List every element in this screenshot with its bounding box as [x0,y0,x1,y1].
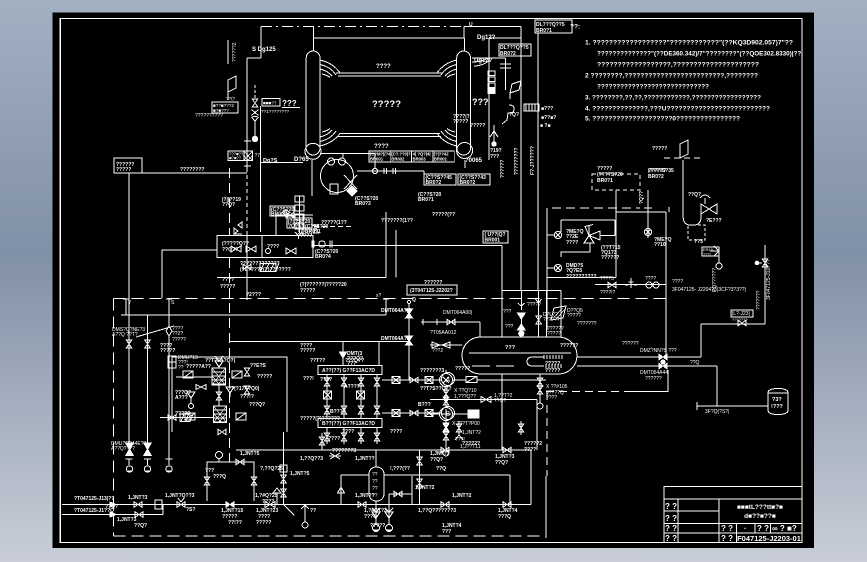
boiler right downcomer column [457,51,471,155]
dosing valve pair [196,385,206,390]
motor valve symbols in box [234,222,242,234]
svg-text:?????: ????? [567,313,581,319]
bottom header valves [134,502,142,508]
svg-text:Q: Q [412,297,416,303]
svg-text:?Q?: ?Q? [509,112,519,118]
aux vertical x648 [647,190,649,238]
svg-text:????????: ???????? [180,167,204,173]
svg-text:??: ?? [372,472,378,478]
boiler right column drain [464,160,466,168]
dosing pump row line [176,376,212,378]
svg-text:?????????: ????????? [514,148,520,176]
control valve with actuator [700,195,710,204]
bypass valve above box [286,212,294,218]
deaerator feed pipe [501,246,503,338]
svg-text:???????3: ???????3 [420,368,444,374]
pump suction line [320,153,343,155]
svg-text:???????: ??????? [577,321,597,327]
svg-text:1,JNT?5: 1,JNT?5 [290,471,310,477]
svg-text:????: ???? [222,277,234,283]
svg-text:???Q?: ???Q? [249,402,265,408]
boiler top-right tube swoosh [437,60,457,78]
phosphate dosing skid outline [172,357,287,432]
svg-text:S Dg125: S Dg125 [252,47,276,53]
drawing border frame [60,19,802,543]
svg-text:!,???(??: !,???(?? [390,466,410,472]
svg-text:??????: ?????? [645,376,662,382]
svg-text:1,JNT?Q??3: 1,JNT?Q??3 [165,493,195,499]
svg-text:?????(??: ?????(?? [432,212,455,218]
svg-text:???!?: ???!? [240,394,254,400]
svg-text:DMT064A00|: DMT064A00| [443,310,472,316]
svg-text:?7: ?7 [255,153,261,159]
svg-text:????2?: ????2? [462,441,480,447]
instrument branch dashed [254,85,256,99]
svg-text:?????3: ?????3 [438,508,456,514]
svg-text:??:: ??: [570,24,580,31]
sample header y315 [121,314,386,316]
relief cones [126,443,133,456]
svg-text:?????: ????? [527,302,541,308]
svg-text:BR001: BR001 [370,157,384,162]
svg-text:BR003: BR003 [413,157,427,162]
sampling rack columns [326,375,328,419]
instrument root stack [295,196,304,202]
header line to left [130,172,247,174]
svg-text:??(?17A?Q0|: ??(?17A?Q0| [228,386,260,392]
svg-text:???Q: ???Q [364,514,377,520]
drop funnels on x521 [518,313,526,319]
feed J-bend [683,160,701,225]
svg-text:??: ?? [372,479,378,485]
svg-text:????: ???? [320,377,332,383]
svg-text:???!: ???! [703,252,711,257]
svg-text:?,??Q?25: ?,??Q?25 [260,466,283,472]
svg-text:??????: ?????? [500,160,506,178]
svg-text:1,JNT?5: 1,JNT?5 [240,451,260,457]
rack bottom drain valves [324,433,330,441]
dashed vertical x229 [229,168,231,235]
feedwater valve group box [217,236,313,258]
svg-text:? ?: ? ? [665,514,677,523]
boiler left header drop [311,160,313,196]
deaerator water level line [469,352,571,354]
boiler lower-left header drum [305,143,321,159]
boiler top dashed header line [261,25,464,27]
right feed riser [665,212,667,357]
sample cooler squares [324,391,332,399]
drain funnels [126,459,173,465]
svg-text:1,??Q??: 1,??Q?? [418,508,438,514]
svg-text:B???: B??? [418,402,431,408]
inlet arrows at frame [110,502,116,517]
boiler top tube bundle [336,72,443,74]
analyser circle A [442,373,455,386]
skid drain valves [218,429,226,435]
boiler left downcomer column [306,51,320,155]
drain valve pair below box [243,264,251,270]
svg-text:??Q?: ??Q? [494,398,506,404]
analyser connecting lines [382,379,442,381]
hatched relief flag [551,306,566,320]
level gauge circle A [440,374,453,387]
vertical x531 [530,450,532,505]
sample line y399 [430,399,537,401]
svg-text:BR001: BR001 [485,238,501,244]
svg-text:PQ??????: PQ?????? [712,268,718,292]
pump discharge cross [344,175,357,189]
branch isolation valve [252,99,258,107]
blowdown vertical third [168,299,170,327]
condensate to tank [716,366,718,406]
loop station [207,462,254,501]
branch riser x261 [260,106,262,232]
blowdown valve row [608,282,616,288]
svg-text:??????????????????,???????????: ??????????????????,????????????????????? [597,62,759,69]
svg-text:U: U [469,22,473,28]
svg-text:????: ???? [342,429,354,435]
svg-text:??10: ??10 [654,242,666,248]
svg-text:?????: ????? [453,119,468,125]
svg-text:?????: ????? [172,337,186,343]
sampling rack lower header box [318,419,382,428]
svg-text:???: ??? [490,154,499,160]
root valve [313,225,319,233]
drain dot [492,142,496,146]
riser to J2204 line [700,324,702,357]
svg-text:??Q?: ??Q? [430,457,443,463]
BR001 box at feed corner [483,231,508,243]
rack feed drop with cone valve [342,342,344,353]
svg-text:?????: ????? [220,284,235,290]
svg-text:?????(?)??????: ?????(?)?????? [300,416,340,422]
svg-text:???2: ???2 [432,348,443,354]
svg-text:■■■??: ■■■?? [263,101,277,106]
condensate header to rack [230,341,410,343]
svg-text:?E???: ?E??? [706,218,722,224]
relief valve station left border [546,208,548,330]
sampling rack upper header box [318,366,382,375]
svg-text:???: ??? [472,97,489,107]
gauge connecting lines [430,379,440,381]
blowdown vertical second [147,315,149,443]
svg-text:?????: ????? [300,288,315,294]
svg-text:BR001: BR001 [434,157,448,162]
svg-text:BR0?1: BR0?1 [418,197,434,203]
svg-text:(?L?????(?)???????: (?L?????(?)??????? [240,267,291,273]
svg-text:1,???Q??: 1,???Q?? [454,394,476,400]
left riser down [128,173,130,443]
svg-text:????: ???? [262,499,274,505]
economizer outlet y277 [217,277,386,279]
branch Y [252,117,259,124]
station pipework [561,219,615,221]
svg-text:Dg12?: Dg12? [474,58,493,64]
svg-text:??Q: ??Q [436,466,446,472]
chemical feed drop x409 [407,300,410,303]
solenoid box [468,410,479,418]
svg-text:■?■??: ■?■?? [229,156,242,161]
inlet funnel A [215,356,223,367]
bottom branch y514 [115,514,163,516]
dashed sample line [314,226,353,228]
svg-text:A??(??) G??F13AC?D: A??(??) G??F13AC?D [322,368,375,374]
svg-text:???????(1??: ???????(1?? [381,218,413,224]
boiler top solid header line [464,25,521,27]
union hook [502,105,514,124]
svg-text:?????????????????????????????: ????????????????????????????? [597,84,709,91]
tag box LJ23 [731,310,753,317]
svg-text:??????????: ?????????? [195,113,223,119]
svg-text:?????: ????? [256,520,271,526]
boiler lower-right header drum [457,143,473,159]
svg-text:1,JNT??: 1,JNT?? [355,456,375,462]
svg-text:?????: ????? [545,368,560,374]
svg-text:????5: ????5 [600,276,614,282]
bottom header y504 [115,504,531,506]
valve on x538 [536,316,542,324]
svg-text:???: ??? [442,529,451,535]
svg-text:??????????????"(??DE360.342)/7: ??????????????"(??DE360.342)/7"????????"… [597,51,803,58]
svg-text:x?: x? [376,293,382,299]
svg-text:??: ?? [310,508,316,514]
svg-text:1. ??????????????????"???????: 1. ??????????????????"????????????"(??KQ… [585,40,793,47]
boiler bottom-left tube swoosh [320,129,340,147]
svg-text:BR0?2: BR0?2 [426,180,442,186]
svg-text:????: ???? [546,395,557,401]
line y212 to riser [616,211,666,213]
svg-text:?T05AA012: ?T05AA012 [430,330,457,336]
svg-text:???????: ??????? [756,290,762,310]
svg-text:???????3: ???????3 [332,448,356,454]
drum inlet manifold header [502,289,561,291]
svg-text:A??Q????: A??Q???? [111,446,135,452]
dashed boundary vertical left [113,299,115,537]
motor valves inside box [231,246,241,252]
svg-text:??????: ?????? [648,168,666,174]
svg-text:?T047125-J13|??: ?T047125-J13|?? [74,496,114,502]
svg-text:?????: ????? [300,348,315,354]
svg-text:??1????????: ??1???????? [261,109,290,114]
capsule drains [375,501,377,524]
svg-text:??Q?: ??Q? [222,202,235,208]
bowtie on x765 [762,259,768,267]
svg-text:4. ??????????????,???U???????: 4. ??????????????,???U??????????????????… [585,106,770,113]
isolation valves on verticals [126,340,132,348]
svg-text:??????: ?????? [543,317,560,323]
svg-text:?Q??: ?Q?? [639,191,645,204]
svg-text:BR0?2: BR0?2 [500,51,516,57]
branch bowtie [252,110,259,117]
svg-text:? ?: ? ? [721,524,733,533]
svg-text:Dg?S: Dg?S [263,158,278,164]
svg-text:? ?: ? ? [665,502,677,511]
svg-text:???Q: ???Q [498,514,511,520]
svg-text:?????: ????? [545,361,560,367]
svg-text:?????: ????? [370,523,385,529]
svg-text:????: ???? [376,64,391,70]
svg-text:1,JNT??: 1,JNT?? [355,493,375,499]
svg-text:BR002: BR002 [391,157,405,162]
strainer and trap [710,246,719,256]
hatched tag box [524,104,539,111]
deaerator drum shell [462,337,577,374]
svg-text:??????: ?????? [560,343,578,349]
svg-text:??T??: ??T?? [310,358,325,364]
valves on y450 [441,447,449,453]
svg-text:????: ???? [390,429,402,435]
vertical drop x546 [546,392,548,476]
economizer left feed [162,250,217,298]
svg-text:????: ???? [566,240,578,246]
svg-text:???!: ???! [303,376,314,382]
NR hatched valve [260,264,276,272]
svg-text:5. ????????????????????0?????: 5. ????????????????????0???????????????? [585,116,740,123]
aux riser x489 [488,38,490,160]
vent U fitting [518,303,524,306]
svg-text:????: ???? [672,279,683,285]
svg-text:1,JNT?3: 1,JNT?3 [128,495,148,501]
dashed boundary horizontal y298 [114,298,669,300]
pneumatic valve body dashes [688,225,705,240]
drain funnel right [226,387,234,397]
tag box beside orifice [228,151,244,161]
boiler bottom-right tube swoosh [437,129,457,147]
svg-text:??Q?: ??Q? [134,523,147,529]
steam outlet from boiler column [472,57,506,59]
svg-text:????: ???? [374,144,389,150]
svg-text:??????: ?????? [601,255,619,261]
analyser circle B [442,407,455,420]
svg-text:B????: B???? [330,409,346,415]
svg-text:????: ???? [328,436,340,442]
valve group inner partition [261,236,263,258]
svg-text:DMT064A?2: DMT064A?2 [381,336,410,342]
svg-text:1,??Q??3: 1,??Q??3 [300,456,323,462]
bottom mid components [265,502,275,508]
svg-text:·: · [744,524,747,533]
svg-text:!???: !??? [771,404,784,410]
svg-text:BR0?3: BR0?3 [355,201,371,207]
mixer box B crosshatched [214,406,227,423]
svg-text:?0065: ?0065 [465,158,483,164]
svg-text:???: ??? [505,345,516,351]
tag hatch label right [262,99,280,106]
svg-text:3. ????????,??,??,???????????: 3. ????????,??,??,????????????,?????????… [585,95,761,102]
svg-text:?S?: ?S? [186,507,195,513]
svg-text:??Q: ??Q [690,360,700,366]
svg-text:BR0(3: BR0(3 [271,212,286,218]
svg-text:?????: ????? [175,411,190,417]
boiler outer casing top [314,37,465,39]
sample rack feed riser [378,342,380,366]
dashed instrument box [592,174,640,190]
svg-text:??Q?: ??Q? [688,192,701,198]
svg-text:???Q??: ???Q?? [345,358,364,364]
svg-text:??: ?? [178,365,184,371]
sample flag [228,76,236,92]
svg-text:BR0?4: BR0?4 [315,254,331,260]
svg-text:BR0?2: BR0?2 [460,180,476,186]
svg-text:?T047125-J1??Q: ?T047125-J1??Q [74,508,114,514]
svg-text:????: ???? [267,244,279,250]
sensor dot [252,136,257,141]
drum bottom drain [537,378,543,386]
interconnecting tube A-B [218,385,220,406]
svg-text:?????: ????? [116,167,131,173]
drum outlet valves [659,354,667,360]
svg-text:???Q: ???Q [213,474,226,480]
flow nozzle on feed line [319,241,325,247]
svg-text:■???: ■??? [541,106,553,112]
svg-text:A??Q ??T?: A??Q ??T? [112,332,138,338]
orifice hatch box [244,151,253,161]
svg-text:??????????: ?????????? [566,274,597,280]
flange ticks on main pipe [244,140,251,142]
title block outer [664,487,802,543]
svg-text:???????: ??????? [732,317,748,322]
svg-text:■??■?: ■??■? [541,115,556,121]
filter capsule [369,467,384,501]
angle valve A [554,231,561,238]
blowdown valve row y284 [595,284,666,286]
stems from economizer area [321,433,323,450]
svg-text:∞ ? ■?: ∞ ? ■? [772,524,797,533]
svg-text:?????: ????? [470,123,485,129]
recirc line y450 [236,449,531,451]
drum outlet line lower [577,365,659,367]
second tag box row [424,174,456,185]
inline sensor boxes [392,377,400,384]
svg-text:d■??■??■: d■??■??■ [744,513,776,520]
svg-text:3F047125-J10???: 3F047125-J10??? [766,259,772,300]
svg-text:??3: ??3 [694,239,703,245]
svg-text:??????2: ??????2 [232,42,238,62]
title block row lines [664,498,802,500]
tag box left [212,102,238,113]
hourglass at x446 y427 [443,423,449,431]
strainer Y [490,125,498,137]
svg-text:?????: ????? [652,146,667,152]
svg-text:? ?: ? ? [665,524,677,533]
svg-text:?????: ????? [257,374,272,380]
svg-text:??Q?: ??Q? [495,460,508,466]
J2204 pipe bend [668,207,670,212]
svg-text:1,JNT?2: 1,JNT?2 [452,493,472,499]
deaerator internal dashes [472,365,490,367]
svg-text:???: ??? [505,324,514,330]
svg-text:????: ???? [524,447,536,453]
left blowdown pipe riser [246,58,248,168]
svg-text:? ?: ? ? [757,524,769,533]
upper-left tag box [114,158,142,173]
header left drop [260,26,262,58]
feedwater line y244 [313,245,502,247]
flow meter row [357,170,424,172]
svg-text:??T?S??Q??: ??T?S??Q?? [420,386,452,392]
svg-text:???: ??? [282,99,297,108]
svg-text:3F047125- J2204?3(3CF?3?3??): 3F047125- J2204?3(3CF?3?3??) [672,287,747,293]
svg-text:BR0?2: BR0?2 [648,174,664,180]
relief valve drain return [561,243,590,257]
svg-text:?????: ????? [160,348,175,354]
svg-text:??E?S: ??E?S [250,363,266,369]
dosing line y417 [160,417,213,419]
svg-text:???: ??? [503,309,512,315]
svg-text:??!??: ??!?? [228,520,242,526]
svg-text:(3T047125-J2202?: (3T047125-J2202? [410,288,453,294]
gauge drain valves [443,390,449,398]
